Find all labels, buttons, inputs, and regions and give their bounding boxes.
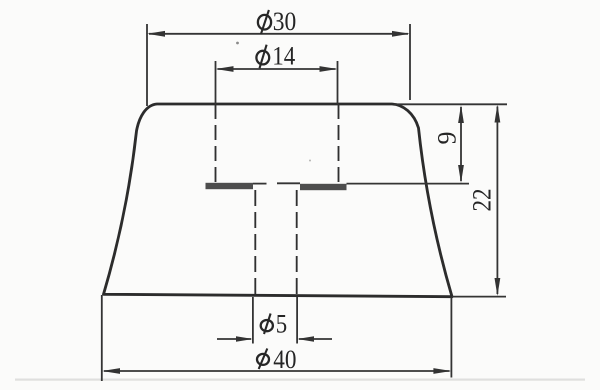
svg-text:9: 9	[433, 132, 462, 145]
svg-text:5: 5	[276, 310, 287, 339]
svg-text:22: 22	[468, 189, 497, 212]
svg-text:14: 14	[272, 42, 295, 71]
svg-text:30: 30	[273, 7, 297, 36]
svg-text:40: 40	[273, 345, 296, 374]
